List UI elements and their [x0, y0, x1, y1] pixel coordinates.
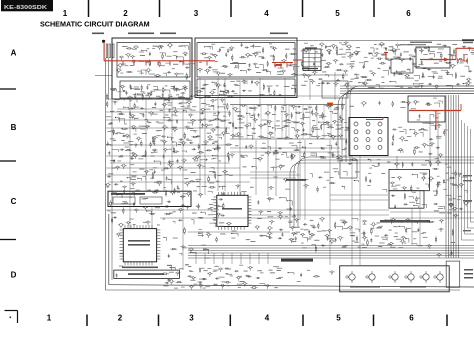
svg-text:3: 3 [194, 9, 199, 18]
svg-text:4: 4 [264, 9, 269, 18]
svg-text:D: D [11, 271, 17, 280]
svg-text:SCHEMATIC CIRCUIT DIAGRAM: SCHEMATIC CIRCUIT DIAGRAM [40, 20, 150, 29]
svg-text:6: 6 [406, 9, 411, 18]
svg-text:5: 5 [336, 314, 341, 323]
svg-text:2: 2 [118, 314, 123, 323]
svg-text:3: 3 [189, 314, 194, 323]
svg-text:6: 6 [409, 314, 414, 323]
svg-text:A: A [11, 49, 17, 58]
svg-text:1: 1 [47, 314, 52, 323]
svg-text:C: C [11, 197, 17, 206]
svg-text:KE-8300SDK: KE-8300SDK [4, 5, 47, 11]
svg-text:1: 1 [63, 9, 68, 18]
svg-text:B: B [11, 123, 17, 132]
svg-text:5: 5 [335, 9, 340, 18]
svg-text:4: 4 [265, 314, 270, 323]
svg-text:2: 2 [123, 9, 128, 18]
